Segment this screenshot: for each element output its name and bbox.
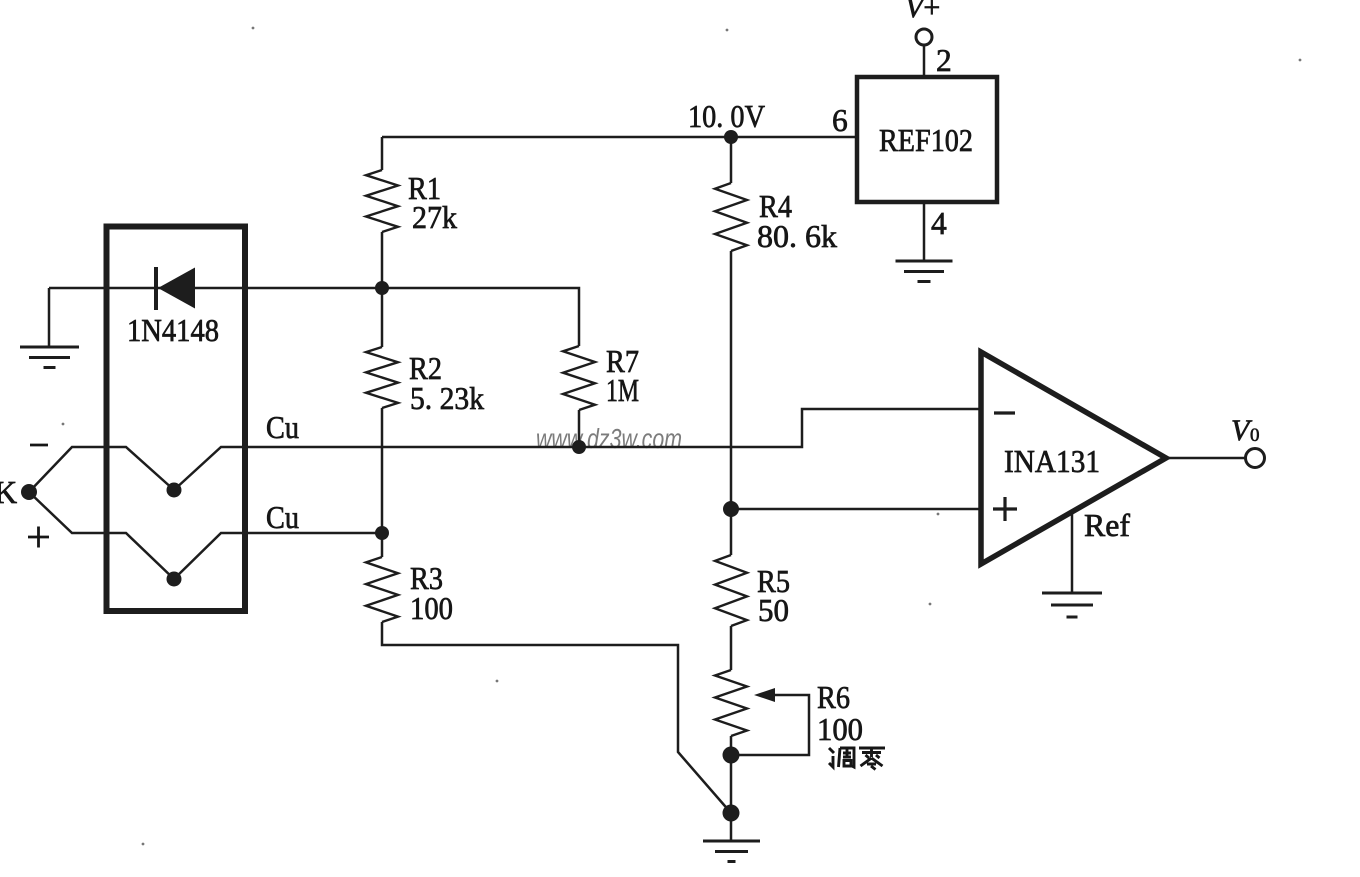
svg-text:6: 6 xyxy=(832,103,848,138)
svg-text:REF102: REF102 xyxy=(879,123,973,158)
svg-text:50: 50 xyxy=(758,593,789,628)
svg-text:80. 6k: 80. 6k xyxy=(757,219,837,254)
svg-text:2: 2 xyxy=(936,43,952,78)
svg-text:R6: R6 xyxy=(817,680,850,715)
svg-text:Cu: Cu xyxy=(266,410,299,445)
svg-text:10. 0V: 10. 0V xyxy=(688,99,765,134)
svg-text:Cu: Cu xyxy=(266,500,299,535)
svg-text:5. 23k: 5. 23k xyxy=(410,381,484,416)
svg-text:Ref: Ref xyxy=(1084,508,1131,543)
svg-text:INA131: INA131 xyxy=(1004,444,1100,479)
svg-text:100: 100 xyxy=(410,591,453,626)
svg-text:4: 4 xyxy=(931,206,947,241)
svg-text:0: 0 xyxy=(1250,425,1260,446)
svg-text:K: K xyxy=(0,474,17,510)
svg-text:1M: 1M xyxy=(606,373,639,408)
svg-text:V+: V+ xyxy=(905,0,940,24)
svg-text:27k: 27k xyxy=(412,200,457,235)
svg-text:www.dz3w.com: www.dz3w.com xyxy=(536,423,682,454)
svg-text:100: 100 xyxy=(817,712,863,747)
svg-text:1N4148: 1N4148 xyxy=(127,313,219,348)
